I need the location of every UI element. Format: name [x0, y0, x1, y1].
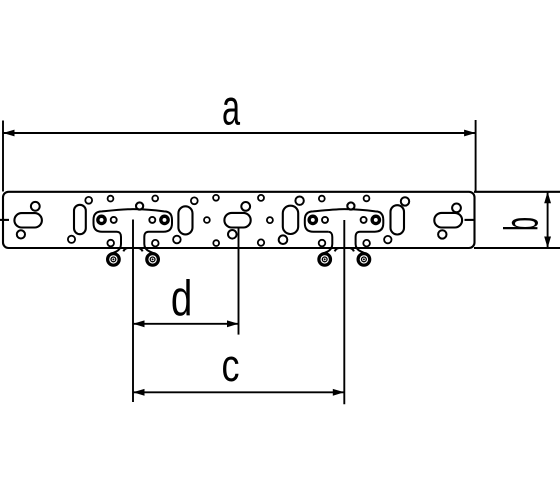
dim d: right extension line (central slot centerline) [238, 228, 240, 335]
slot: vertical obround 2 [178, 206, 192, 234]
svg-text:c: c [221, 340, 239, 391]
hole below-left of v-obround 3 [279, 235, 288, 244]
hole below clip right [152, 240, 159, 247]
hole below-left of left obround [17, 230, 25, 238]
dim d: dimension line [133, 323, 239, 325]
wire: b extension line bottom (rail bottom edge extended) [474, 247, 560, 249]
arrowhead a right [464, 130, 476, 137]
svg-text:a: a [222, 79, 240, 135]
hole below-left of central obround [228, 230, 237, 239]
slot: vertical obround 1 [74, 205, 86, 234]
hole below-left of v-obround 2 [173, 236, 181, 244]
hole trio left: bottom [213, 240, 219, 246]
hole below-left of v-obround 1 [68, 236, 75, 243]
rivet left [98, 216, 105, 223]
hole below clip left [107, 240, 114, 247]
left center tick [0, 219, 9, 221]
hole above clip left [108, 196, 114, 202]
hole above-right of v-obround 4 [401, 197, 409, 205]
bracket clip assembly right [305, 196, 384, 266]
hole above-right of central obround [241, 202, 250, 211]
hole above-right of v-obround 2 [191, 197, 198, 204]
clip left leg [111, 232, 121, 255]
svg-text:d: d [171, 272, 192, 327]
arrowhead d right [227, 320, 239, 327]
dim c: right extension line (bracket 2 centerline) [343, 220, 345, 404]
hole trio left: top [213, 195, 219, 201]
wire: b extension line top (rail top edge extended) [474, 191, 560, 193]
clip tongue curl right [139, 248, 143, 251]
hole above clip right [152, 196, 158, 202]
arrowhead a left [3, 130, 15, 137]
dim b: dimension line [547, 192, 549, 248]
hole in clip right [149, 217, 155, 223]
arrowhead d left [133, 320, 145, 327]
dim a: dimension line [3, 132, 476, 134]
hole trio right: middle [267, 217, 273, 223]
hole below-left of right obround [438, 230, 446, 238]
notch hole on clip top edge [136, 202, 143, 209]
dim a: left extension line [2, 121, 4, 192]
hole in clip left [111, 217, 117, 223]
slot: central horizontal obround [224, 213, 250, 228]
bracket clip assembly left [94, 196, 173, 266]
hole above-right of v-obround 3 [295, 197, 303, 205]
dim c/d: left extension line (bracket 1 centerline) [132, 220, 134, 403]
clip tongue curl left [123, 248, 127, 251]
slot: vertical obround 4 [391, 205, 405, 234]
hole trio left: middle [204, 217, 210, 223]
arrowhead c right [333, 389, 345, 396]
svg-text:b: b [496, 217, 549, 231]
dim a: right extension line [475, 120, 477, 192]
dim c: dimension line [133, 391, 344, 393]
hole trio right: top [258, 195, 264, 201]
rivet right [161, 216, 168, 223]
arrowhead c left [133, 389, 145, 396]
right center tick [465, 219, 475, 221]
hole trio right: bottom [258, 239, 264, 245]
roller wheel left [108, 254, 120, 266]
slot: vertical obround 3 [283, 206, 298, 234]
hole below-left of v-obround 4 [384, 236, 391, 243]
roller wheel right [147, 254, 159, 266]
arrowhead b bottom [544, 237, 551, 249]
slot: left horizontal obround [14, 213, 42, 227]
hole above-right of right obround [452, 204, 461, 213]
clip bar outline with legs [94, 209, 173, 254]
mounting rail body [3, 192, 475, 248]
slot: right horizontal obround [434, 213, 462, 228]
hole above-right of left obround [31, 202, 40, 211]
arrowhead b top [544, 192, 551, 204]
hole above-right of v-obround 1 [85, 197, 92, 204]
